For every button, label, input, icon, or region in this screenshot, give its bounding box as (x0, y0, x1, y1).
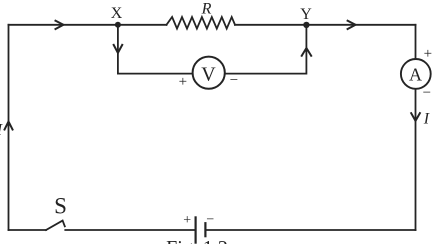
wire left vertical (8, 25, 10, 230)
voltmeter U-V circle (193, 57, 225, 89)
svg-text:−: − (423, 85, 431, 101)
svg-text:V: V (201, 64, 216, 86)
svg-text:+: + (183, 213, 191, 228)
wire top-left segment (9, 24, 167, 26)
wire right vertical upper (corner to ammeter) (415, 25, 417, 59)
ammeter U-A circle (401, 59, 431, 89)
wire Y branch (down from Y then left to voltmeter) (225, 25, 306, 74)
svg-text:−: − (206, 212, 214, 227)
arrow up on Y branch (301, 48, 312, 57)
svg-text:Fig. 1.2: Fig. 1.2 (166, 237, 228, 244)
arrow right on top-left wire (55, 20, 64, 29)
svg-text:Y: Y (300, 6, 312, 23)
arrow right on top-right wire (347, 20, 356, 29)
svg-text:−: − (230, 73, 238, 89)
battery positive plate (long) (195, 217, 197, 242)
node X junction dot (115, 22, 121, 28)
arrow down on right wire (current I) (411, 112, 421, 121)
switch S blade (46, 221, 65, 230)
svg-text:X: X (111, 5, 123, 22)
resistor R zigzag (167, 17, 236, 29)
node Y junction dot (303, 22, 309, 28)
wire X branch (down from X then right to voltmeter) (118, 25, 192, 74)
svg-text:A: A (409, 64, 422, 84)
svg-text:I: I (423, 111, 430, 128)
wire bottom-right segment (corner to battery) (206, 229, 415, 231)
wire top-right segment (Y to corner) (235, 24, 416, 26)
wire bottom-left stub (corner to switch) (9, 229, 47, 231)
arrow down on X branch (113, 44, 123, 53)
svg-text:S: S (54, 193, 67, 218)
svg-text:+: + (424, 46, 432, 62)
svg-text:+: + (179, 74, 187, 90)
arrow up on left wire (current I) (4, 122, 13, 131)
wire bottom-left segment (battery to switch) (65, 229, 194, 231)
wire right vertical lower (ammeter to bottom corner) (415, 89, 417, 230)
battery negative plate (short) (204, 223, 206, 236)
svg-text:I: I (0, 120, 4, 139)
svg-text:R: R (201, 0, 212, 17)
